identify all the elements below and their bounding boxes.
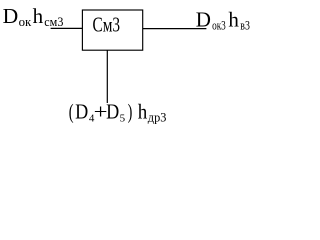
svg-text:(D4+D5)hдр3: (D4+D5)hдр3: [69, 99, 167, 124]
wire bottom input: [106, 50, 108, 103]
svg-text:Dокhсм3: Dокhсм3: [3, 4, 64, 29]
wire left input: [51, 27, 83, 29]
wire right output: [143, 28, 207, 30]
svg-text:Dок3hв3: Dок3hв3: [196, 8, 250, 33]
svg-text:См3: См3: [93, 12, 121, 36]
block См3 (mixer box): [82, 10, 142, 50]
